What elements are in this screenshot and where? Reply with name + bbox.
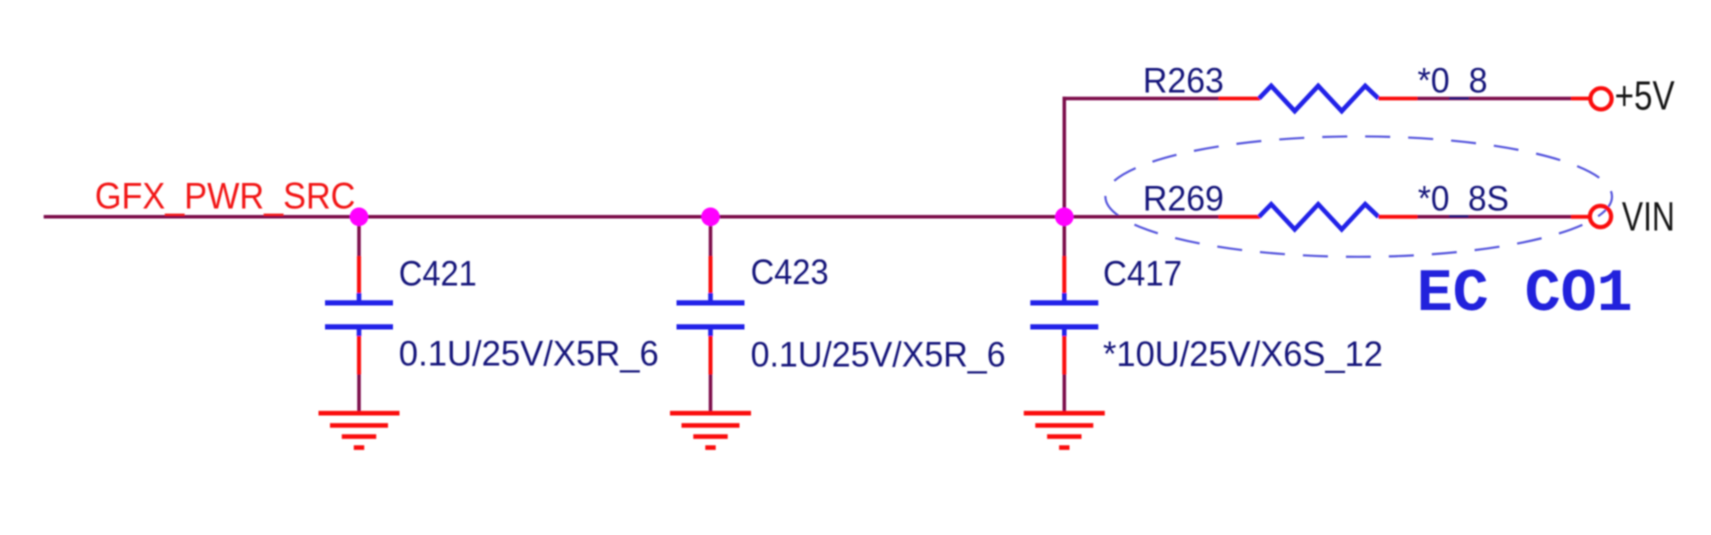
svg-text:+5V: +5V [1615, 72, 1676, 118]
svg-text:0.1U/25V/X5R_6: 0.1U/25V/X5R_6 [751, 336, 1006, 375]
svg-text:EC CO1: EC CO1 [1417, 261, 1633, 329]
svg-text:C421: C421 [399, 255, 477, 294]
svg-text:C417: C417 [1103, 255, 1182, 294]
svg-text:R269: R269 [1143, 180, 1224, 219]
svg-text:*10U/25V/X6S_12: *10U/25V/X6S_12 [1103, 335, 1383, 374]
svg-text:0.1U/25V/X5R_6: 0.1U/25V/X5R_6 [399, 334, 659, 373]
svg-text:*0_8: *0_8 [1418, 61, 1488, 100]
svg-text:GFX_PWR_SRC: GFX_PWR_SRC [95, 176, 356, 217]
svg-text:*0_8S: *0_8S [1418, 180, 1509, 219]
svg-text:R263: R263 [1143, 61, 1224, 100]
svg-text:C423: C423 [751, 253, 829, 292]
svg-text:VIN: VIN [1622, 194, 1675, 240]
